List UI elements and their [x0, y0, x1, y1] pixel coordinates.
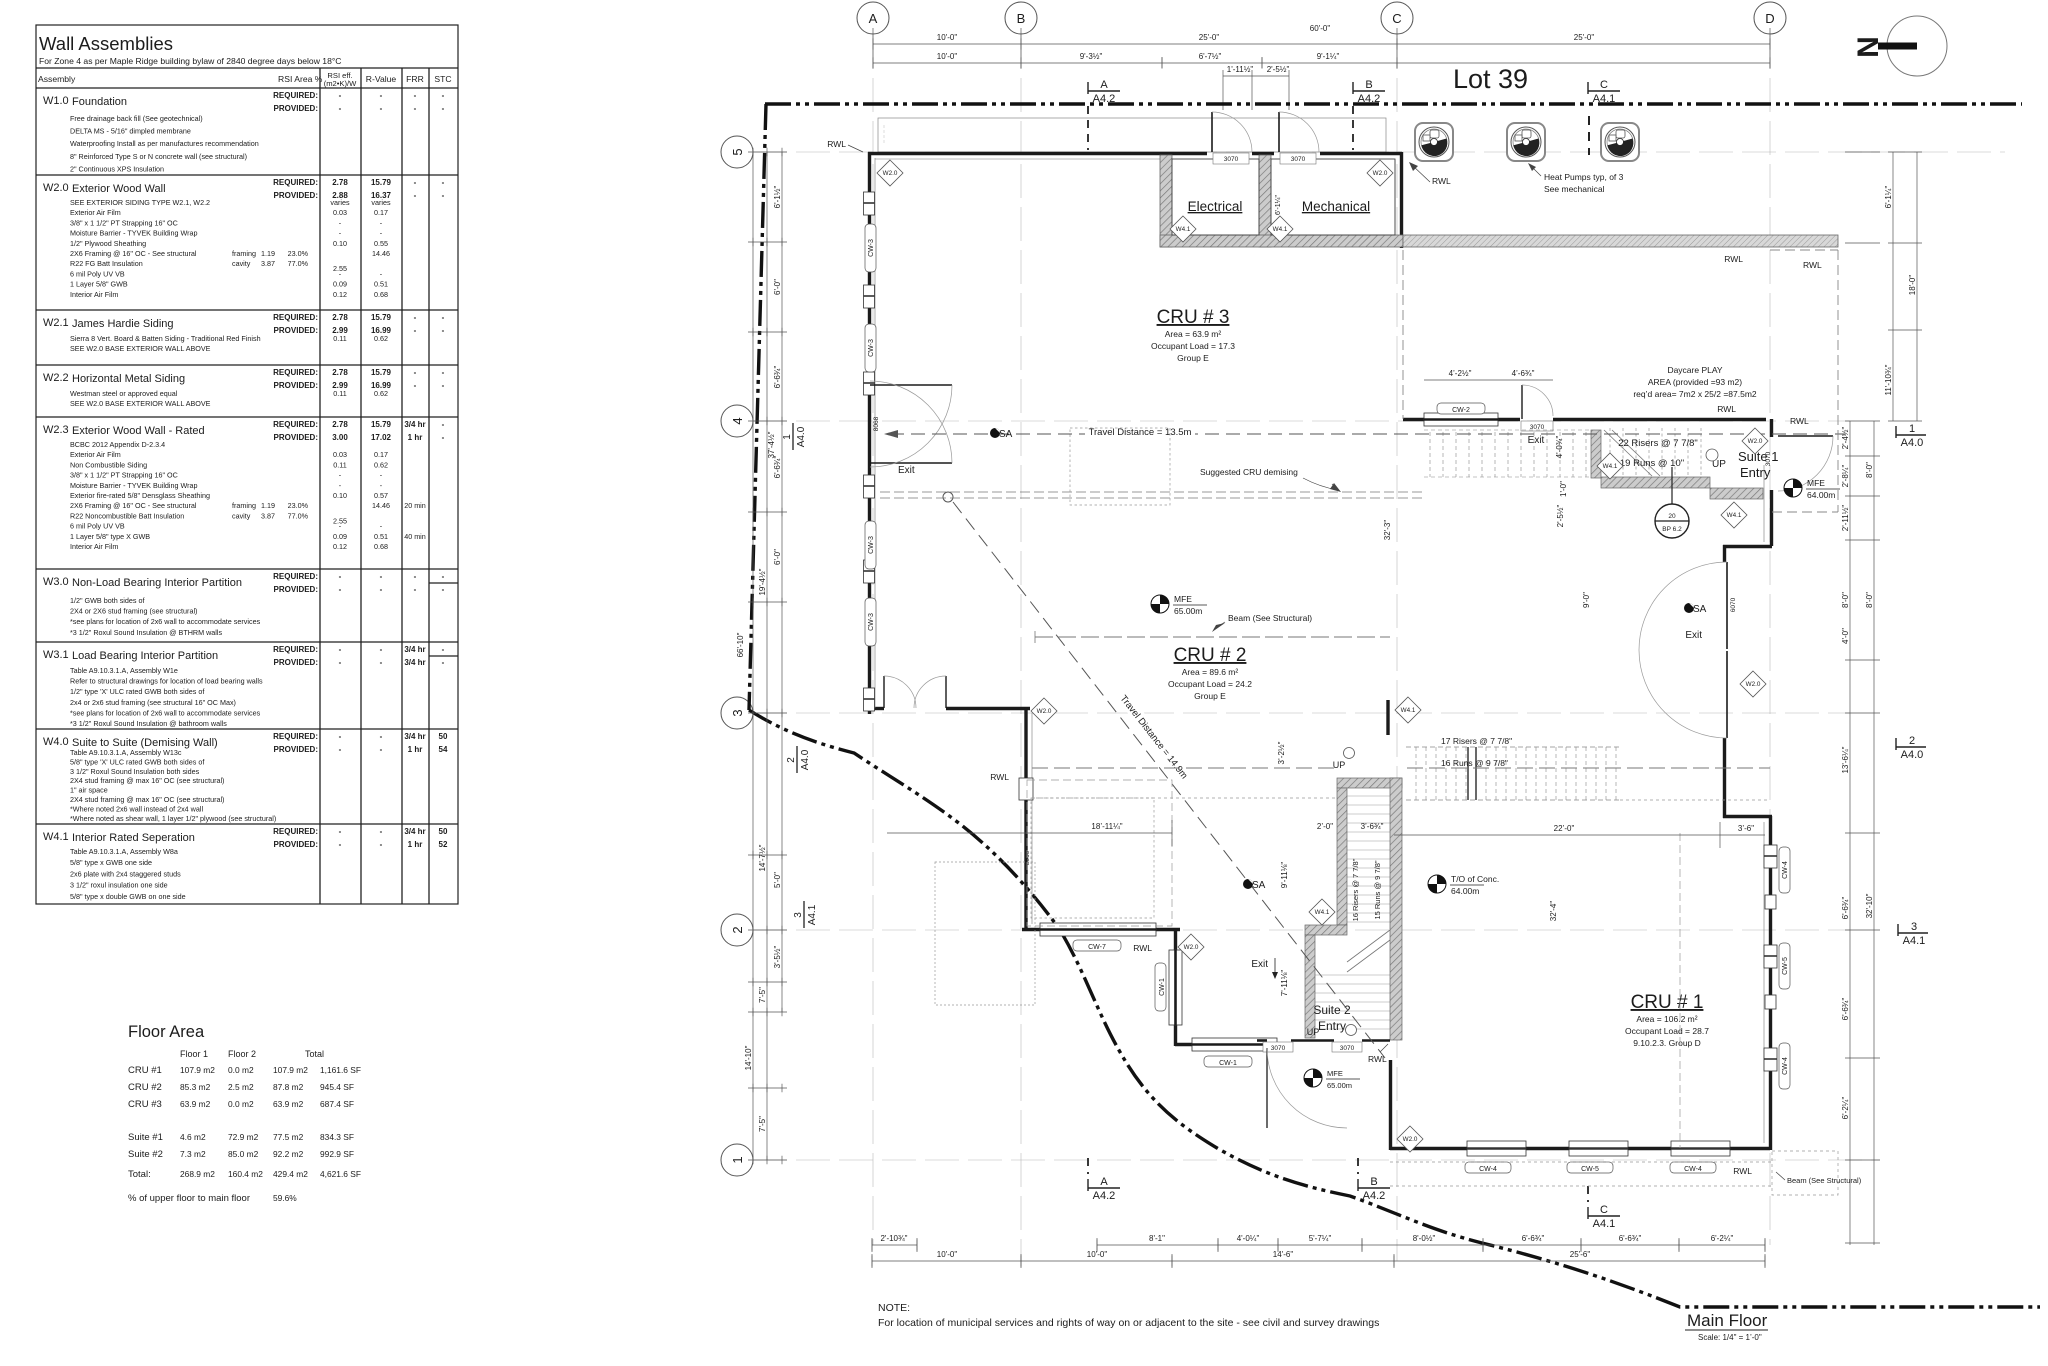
- svg-text:-: -: [414, 381, 417, 390]
- svg-text:-: -: [414, 104, 417, 113]
- svg-text:0.57: 0.57: [374, 491, 388, 500]
- lower-left step walls: [868, 707, 884, 710]
- svg-text:7'-5": 7'-5": [758, 987, 767, 1003]
- svg-text:22’-0": 22’-0": [1554, 824, 1575, 833]
- svg-text:-: -: [380, 585, 383, 594]
- svg-text:Table A9.10.3.1.A, Assembly W8: Table A9.10.3.1.A, Assembly W8a: [70, 847, 178, 856]
- svg-text:54: 54: [439, 745, 448, 754]
- svg-text:14'-7½": 14'-7½": [758, 844, 767, 871]
- svg-text:1: 1: [730, 1156, 745, 1163]
- svg-text:2’-0": 2’-0": [1317, 822, 1333, 831]
- svg-text:cavity: cavity: [232, 511, 251, 520]
- svg-text:15 Runs @ 9 7/8": 15 Runs @ 9 7/8": [1373, 860, 1382, 919]
- svg-text:Total: Total: [305, 1049, 324, 1059]
- svg-text:3070: 3070: [1271, 1045, 1286, 1052]
- svg-text:D: D: [1765, 11, 1774, 26]
- svg-text:AREA (provided =93 m2): AREA (provided =93 m2): [1648, 377, 1742, 387]
- svg-text:2'-5½": 2'-5½": [1556, 505, 1565, 528]
- svg-text:-: -: [380, 91, 383, 100]
- svg-text:REQUIRED:: REQUIRED:: [273, 732, 318, 741]
- svg-text:-: -: [442, 420, 445, 429]
- door 3070 electrical: [1211, 112, 1213, 152]
- svg-text:RWL: RWL: [990, 772, 1009, 782]
- svg-text:50: 50: [439, 827, 448, 836]
- svg-text:-: -: [339, 827, 342, 836]
- svg-text:RWL: RWL: [1717, 404, 1736, 414]
- svg-text:72.9 m2: 72.9 m2: [228, 1132, 259, 1142]
- svg-text:REQUIRED:: REQUIRED:: [273, 420, 318, 429]
- svg-text:Suite 2: Suite 2: [1313, 1003, 1351, 1017]
- daycare play dashed boundary: [1403, 250, 1838, 512]
- svg-text:2'-5½": 2'-5½": [1267, 65, 1290, 74]
- svg-text:32'-10": 32'-10": [1865, 893, 1874, 918]
- svg-text:50: 50: [439, 732, 448, 741]
- svg-text:-: -: [380, 840, 383, 849]
- svg-text:-: -: [442, 585, 445, 594]
- svg-text:-: -: [442, 368, 445, 377]
- svg-text:REQUIRED:: REQUIRED:: [273, 827, 318, 836]
- svg-text:W2.0: W2.0: [1746, 681, 1761, 688]
- svg-text:BCBC 2012 Appendix D-2.3.4: BCBC 2012 Appendix D-2.3.4: [70, 440, 165, 449]
- wall assemblies table: [36, 25, 458, 904]
- svg-text:64.00m: 64.00m: [1451, 886, 1479, 896]
- svg-text:-: -: [442, 433, 445, 442]
- right dimension lines: [1845, 152, 1922, 1245]
- svg-text:6'-6¾": 6'-6¾": [1619, 1234, 1642, 1243]
- svg-text:W2.0: W2.0: [1403, 1136, 1418, 1143]
- svg-text:CW-3: CW-3: [868, 536, 875, 554]
- svg-text:framing: framing: [232, 249, 256, 258]
- svg-text:-: -: [380, 572, 383, 581]
- svg-text:N: N: [1852, 36, 1885, 58]
- svg-text:Wall Assemblies: Wall Assemblies: [39, 33, 173, 54]
- svg-text:25'-0": 25'-0": [1199, 33, 1220, 42]
- svg-text:2'-11½": 2'-11½": [1841, 505, 1850, 532]
- svg-text:W2.0: W2.0: [1373, 170, 1388, 177]
- svg-text:2'-4½": 2'-4½": [1841, 427, 1850, 450]
- svg-text:B: B: [1370, 1176, 1377, 1188]
- svg-text:-: -: [442, 313, 445, 322]
- svg-text:6'-6¾": 6'-6¾": [773, 366, 782, 389]
- svg-text:0.12: 0.12: [333, 290, 347, 299]
- svg-text:19 Runs @ 10": 19 Runs @ 10": [1620, 458, 1684, 469]
- svg-text:Exit: Exit: [898, 465, 915, 476]
- svg-text:40 min: 40 min: [404, 532, 426, 541]
- svg-text:-: -: [380, 745, 383, 754]
- svg-text:MFE: MFE: [1807, 478, 1825, 488]
- svg-text:RWL: RWL: [1432, 176, 1451, 186]
- svg-text:3/4 hr: 3/4 hr: [404, 645, 425, 654]
- svg-text:3/4 hr: 3/4 hr: [404, 420, 425, 429]
- svg-text:0.68: 0.68: [374, 290, 388, 299]
- svg-text:W2.0: W2.0: [1184, 944, 1199, 951]
- right exterior wall: [1769, 816, 1772, 1150]
- svg-text:Heat Pumps typ, of 3: Heat Pumps typ, of 3: [1544, 172, 1624, 182]
- window CW-1 vertical: [1169, 950, 1182, 1025]
- svg-text:6'-6¾": 6'-6¾": [1841, 998, 1850, 1021]
- svg-text:SEE W2.0 BASE EXTERIOR WALL AB: SEE W2.0 BASE EXTERIOR WALL ABOVE: [70, 344, 211, 353]
- svg-text:0.09: 0.09: [333, 280, 347, 289]
- svg-text:W4.1: W4.1: [1176, 226, 1191, 233]
- svg-text:992.9 SF: 992.9 SF: [320, 1149, 354, 1159]
- svg-text:-: -: [414, 313, 417, 322]
- svg-text:-: -: [339, 645, 342, 654]
- svg-text:63.9 m2: 63.9 m2: [273, 1099, 304, 1109]
- svg-text:Assembly: Assembly: [38, 74, 76, 84]
- svg-text:-: -: [339, 745, 342, 754]
- svg-text:Non Combustible Siding: Non Combustible Siding: [70, 460, 147, 469]
- svg-text:req’d area= 7m2 x 25/2 =87.5m: req’d area= 7m2 x 25/2 =87.5m2: [1633, 389, 1757, 399]
- svg-text:W4.1: W4.1: [43, 831, 69, 843]
- svg-text:63.9 m2: 63.9 m2: [180, 1099, 211, 1109]
- svg-text:5/8" type x double GWB on one: 5/8" type x double GWB on one side: [70, 892, 186, 901]
- svg-text:varies: varies: [371, 198, 391, 207]
- left dimension lines: [748, 148, 787, 1164]
- svg-text:22 Risers @ 7 7/8": 22 Risers @ 7 7/8": [1618, 438, 1698, 449]
- window CW-1 horizontal: [1192, 1038, 1277, 1051]
- door 8068 left wall: [870, 384, 952, 386]
- svg-text:A4.0: A4.0: [796, 426, 807, 447]
- svg-text:2x6 plate with 2x4 staggered s: 2x6 plate with 2x4 staggered studs: [70, 869, 181, 878]
- svg-text:8'-0": 8'-0": [1865, 462, 1874, 478]
- svg-text:Waterproofing Install as per m: Waterproofing Install as per manufacture…: [70, 139, 259, 148]
- svg-text:PROVIDED:: PROVIDED:: [274, 191, 318, 200]
- svg-text:37'-4½": 37'-4½": [767, 431, 776, 458]
- svg-text:A4.1: A4.1: [807, 904, 818, 925]
- svg-text:RWL: RWL: [1724, 254, 1743, 264]
- wall type diamonds: [877, 160, 903, 186]
- svg-text:15.79: 15.79: [371, 368, 392, 377]
- svg-text:R22 Noncombustible Batt Insula: R22 Noncombustible Batt Insulation: [70, 511, 184, 520]
- svg-text:0.62: 0.62: [374, 334, 388, 343]
- svg-text:6'-1¼": 6'-1¼": [1884, 186, 1893, 209]
- svg-text:-: -: [414, 572, 417, 581]
- svg-text:W3.0: W3.0: [43, 576, 69, 588]
- svg-text:0.11: 0.11: [333, 334, 346, 343]
- svg-text:6'-7½": 6'-7½": [1199, 52, 1222, 61]
- svg-text:15.79: 15.79: [371, 420, 392, 429]
- svg-text:3.87: 3.87: [261, 511, 275, 520]
- beam note bottom right: [1390, 1151, 1838, 1195]
- svg-text:W3.1: W3.1: [43, 649, 69, 661]
- svg-text:-: -: [380, 658, 383, 667]
- svg-text:CW-1: CW-1: [1219, 1060, 1237, 1067]
- svg-text:3’-2½": 3’-2½": [1277, 741, 1286, 764]
- svg-text:Total:: Total:: [128, 1169, 151, 1180]
- svg-text:0.62: 0.62: [374, 389, 388, 398]
- svg-text:-: -: [339, 585, 342, 594]
- window CW-2: [1424, 413, 1498, 426]
- svg-text:6'-1½": 6'-1½": [773, 186, 782, 209]
- suite 1 stair treads: [1424, 428, 1701, 477]
- svg-text:59.6%: 59.6%: [273, 1193, 297, 1203]
- svg-text:Group E: Group E: [1177, 353, 1209, 363]
- svg-text:W2.0: W2.0: [43, 182, 69, 194]
- row4 wall: [1403, 418, 1424, 421]
- svg-text:UP: UP: [1307, 1027, 1320, 1037]
- svg-text:8'-1": 8'-1": [1149, 1234, 1165, 1243]
- svg-text:A4.0: A4.0: [1901, 749, 1924, 761]
- svg-text:T/O of Conc.: T/O of Conc.: [1451, 874, 1499, 884]
- svg-text:Main Floor: Main Floor: [1687, 1311, 1768, 1330]
- svg-text:Area = 63.9 m²: Area = 63.9 m²: [1165, 329, 1222, 339]
- svg-text:2X6 Framing @ 16" OC - See str: 2X6 Framing @ 16" OC - See structural: [70, 501, 197, 510]
- svg-text:W4.1: W4.1: [1603, 463, 1618, 470]
- svg-text:0.11: 0.11: [333, 460, 346, 469]
- svg-text:3/4 hr: 3/4 hr: [404, 658, 425, 667]
- svg-text:1/2" type 'X' ULC rated GWB bo: 1/2" type 'X' ULC rated GWB both sides o…: [70, 687, 204, 696]
- svg-text:66'-10": 66'-10": [736, 632, 745, 657]
- svg-text:W4.1: W4.1: [1401, 707, 1416, 714]
- svg-text:*see plans for location of 2x6: *see plans for location of 2x6 wall to a…: [70, 617, 261, 626]
- svg-text:-: -: [414, 326, 417, 335]
- svg-text:14'-6": 14'-6": [1273, 1250, 1294, 1259]
- svg-text:For location of municipal serv: For location of municipal services and r…: [878, 1317, 1379, 1329]
- svg-text:Interior Air Film: Interior Air Film: [70, 542, 118, 551]
- svg-text:1" air space: 1" air space: [70, 786, 108, 795]
- svg-text:Travel Distance = 13.5m: Travel Distance = 13.5m: [1089, 427, 1192, 438]
- svg-text:framing: framing: [232, 501, 256, 510]
- suite 1 stair hatched walls: [1591, 430, 1601, 478]
- svg-text:-: -: [442, 326, 445, 335]
- svg-text:-: -: [442, 191, 445, 200]
- svg-text:CRU #3: CRU #3: [128, 1099, 162, 1110]
- T/O of Conc symbol: [1428, 874, 1499, 896]
- svg-text:SA: SA: [999, 429, 1013, 440]
- svg-text:Electrical: Electrical: [1188, 199, 1243, 214]
- svg-text:C: C: [1600, 1204, 1608, 1216]
- svg-text:17 Risers @ 7 7/8": 17 Risers @ 7 7/8": [1441, 736, 1512, 746]
- door 3070 mechanical: [1278, 112, 1280, 152]
- svg-text:6070: 6070: [1730, 597, 1737, 612]
- svg-text:W2.0: W2.0: [883, 170, 898, 177]
- svg-text:CW-2: CW-2: [1452, 407, 1470, 414]
- svg-text:PROVIDED:: PROVIDED:: [274, 585, 318, 594]
- svg-text:SEE W2.0 BASE EXTERIOR WALL AB: SEE W2.0 BASE EXTERIOR WALL ABOVE: [70, 399, 211, 408]
- svg-text:Exterior Wood Wall: Exterior Wood Wall: [72, 183, 166, 195]
- svg-text:B: B: [1017, 11, 1026, 26]
- svg-text:9'-3½": 9'-3½": [1080, 52, 1103, 61]
- svg-text:2.78: 2.78: [332, 420, 348, 429]
- svg-text:10'-0": 10'-0": [1087, 1250, 1108, 1259]
- svg-text:3/4 hr: 3/4 hr: [404, 732, 425, 741]
- svg-text:8068: 8068: [873, 416, 880, 431]
- svg-text:Exit: Exit: [1251, 959, 1268, 970]
- svg-text:-: -: [380, 104, 383, 113]
- svg-text:Beam (See Structural): Beam (See Structural): [1787, 1176, 1862, 1185]
- svg-text:1.19: 1.19: [261, 501, 275, 510]
- svg-text:834.3 SF: 834.3 SF: [320, 1132, 354, 1142]
- svg-text:REQUIRED:: REQUIRED:: [273, 91, 318, 100]
- svg-text:Load Bearing Interior Partitio: Load Bearing Interior Partition: [72, 650, 218, 662]
- svg-text:REQUIRED:: REQUIRED:: [273, 645, 318, 654]
- svg-text:Refer to structural drawings f: Refer to structural drawings for locatio…: [70, 677, 263, 686]
- svg-text:Scale: 1/4" = 1’-0": Scale: 1/4" = 1’-0": [1698, 1333, 1762, 1342]
- svg-text:NOTE:: NOTE:: [878, 1302, 910, 1314]
- top dimension lines: [867, 28, 1775, 110]
- svg-text:6'-0": 6'-0": [773, 549, 782, 565]
- svg-text:Daycare PLAY: Daycare PLAY: [1667, 365, 1722, 375]
- suite 2 entry doors: [1257, 1039, 1267, 1042]
- svg-text:77.5 m2: 77.5 m2: [273, 1132, 304, 1142]
- svg-text:*Where noted as shear wall, 1: *Where noted as shear wall, 1 layer 1/2"…: [70, 814, 276, 823]
- svg-text:429.4 m2: 429.4 m2: [273, 1169, 308, 1179]
- svg-text:0.10: 0.10: [333, 239, 347, 248]
- svg-text:C: C: [1600, 79, 1608, 91]
- svg-text:8'-0": 8'-0": [1865, 592, 1874, 608]
- svg-text:3’-6¾": 3’-6¾": [1361, 822, 1384, 831]
- svg-text:A4.2: A4.2: [1363, 1190, 1386, 1202]
- grid bubbles: [721, 2, 1786, 1176]
- svg-text:W4.0: W4.0: [43, 736, 69, 748]
- svg-text:James Hardie Siding: James Hardie Siding: [72, 318, 174, 330]
- svg-text:Occupant Load = 24.2: Occupant Load = 24.2: [1168, 679, 1252, 689]
- svg-text:Suggested CRU demising: Suggested CRU demising: [1200, 467, 1298, 477]
- svg-text:-: -: [339, 840, 342, 849]
- svg-text:2X6 Framing @ 16" OC - See str: 2X6 Framing @ 16" OC - See structural: [70, 249, 197, 258]
- svg-text:PROVIDED:: PROVIDED:: [274, 658, 318, 667]
- svg-text:1,161.6 SF: 1,161.6 SF: [320, 1065, 361, 1075]
- svg-text:1/2" Plywood Sheathing: 1/2" Plywood Sheathing: [70, 239, 146, 248]
- svg-text:-: -: [414, 178, 417, 187]
- svg-text:CW-4: CW-4: [1479, 1166, 1497, 1173]
- svg-text:FRR: FRR: [406, 74, 424, 84]
- svg-text:3’-6": 3’-6": [1738, 824, 1754, 833]
- svg-text:10'-0": 10'-0": [937, 1250, 958, 1259]
- svg-text:-: -: [442, 178, 445, 187]
- svg-text:-: -: [414, 585, 417, 594]
- svg-text:PROVIDED:: PROVIDED:: [274, 745, 318, 754]
- svg-text:1.19: 1.19: [261, 249, 275, 258]
- svg-text:PROVIDED:: PROVIDED:: [274, 433, 318, 442]
- svg-text:REQUIRED:: REQUIRED:: [273, 368, 318, 377]
- svg-text:20: 20: [1668, 513, 1676, 520]
- svg-text:2x4 or 2x6 stud framing (see s: 2x4 or 2x6 stud framing (see structural …: [70, 698, 236, 707]
- svg-text:8060: 8060: [1024, 850, 1031, 865]
- svg-text:268.9 m2: 268.9 m2: [180, 1169, 215, 1179]
- heat pumps: [1415, 123, 1453, 161]
- svg-text:W2.3: W2.3: [43, 424, 69, 436]
- svg-text:6 mil Poly UV VB: 6 mil Poly UV VB: [70, 269, 125, 278]
- svg-text:0.62: 0.62: [374, 460, 388, 469]
- svg-text:CRU #2: CRU #2: [128, 1082, 162, 1093]
- svg-text:14.46: 14.46: [372, 249, 390, 258]
- svg-text:A4.0: A4.0: [1901, 437, 1924, 449]
- svg-text:Floor 1: Floor 1: [180, 1049, 208, 1059]
- svg-text:0.03: 0.03: [333, 450, 347, 459]
- svg-text:8'-0": 8'-0": [1841, 592, 1850, 608]
- svg-text:7'-11⅛": 7'-11⅛": [1280, 970, 1289, 997]
- svg-text:BP 6.2: BP 6.2: [1662, 526, 1682, 533]
- exit alcove: [1723, 545, 1772, 548]
- svg-text:2: 2: [1909, 735, 1915, 747]
- svg-text:Exterior Wood Wall - Rated: Exterior Wood Wall - Rated: [72, 425, 205, 437]
- svg-text:(m2•K)/W: (m2•K)/W: [324, 79, 357, 88]
- svg-text:PROVIDED:: PROVIDED:: [274, 326, 318, 335]
- door lower-left wall: [883, 676, 885, 708]
- svg-text:RWL: RWL: [1733, 1166, 1752, 1176]
- beam line: [1035, 636, 1390, 638]
- svg-text:2X4 stud framing @ max 16" OC: 2X4 stud framing @ max 16" OC (see struc…: [70, 795, 224, 804]
- svg-text:SA: SA: [1252, 880, 1266, 891]
- svg-text:3 1/2" roxul insulation one si: 3 1/2" roxul insulation one side: [70, 881, 168, 890]
- svg-text:*3 1/2" Roxul Sound Insulation: *3 1/2" Roxul Sound Insulation @ bathroo…: [70, 719, 227, 728]
- svg-text:CW-4: CW-4: [1782, 1057, 1789, 1075]
- svg-text:-: -: [380, 827, 383, 836]
- MFE 65.00m symbol: [1151, 594, 1207, 616]
- svg-text:Exit: Exit: [1528, 435, 1545, 446]
- svg-text:687.4 SF: 687.4 SF: [320, 1099, 354, 1109]
- svg-text:-: -: [339, 572, 342, 581]
- svg-text:8'-0½": 8'-0½": [1413, 1234, 1436, 1243]
- svg-text:RWL: RWL: [827, 139, 846, 149]
- svg-text:2.5 m2: 2.5 m2: [228, 1082, 254, 1092]
- left exterior wall: [868, 152, 871, 714]
- svg-text:-: -: [339, 104, 342, 113]
- svg-text:RWL: RWL: [1133, 943, 1152, 953]
- svg-text:Exterior Air Film: Exterior Air Film: [70, 208, 121, 217]
- svg-text:6'-2¼": 6'-2¼": [1711, 1234, 1734, 1243]
- svg-text:CW-3: CW-3: [868, 239, 875, 257]
- svg-text:4’-6¾": 4’-6¾": [1512, 369, 1535, 378]
- suite 2 stair shaft: [1315, 796, 1390, 1029]
- svg-text:A4.0: A4.0: [800, 749, 811, 770]
- svg-text:17.02: 17.02: [371, 433, 392, 442]
- svg-text:W4.1: W4.1: [1273, 226, 1288, 233]
- suite 1 entry door: [1778, 435, 1833, 437]
- travel distance 13.5m line: [890, 433, 1845, 435]
- svg-text:10'-0": 10'-0": [937, 33, 958, 42]
- suite1 right wall: [1770, 419, 1773, 437]
- svg-text:-: -: [442, 645, 445, 654]
- svg-text:3: 3: [793, 912, 804, 918]
- svg-text:14'-10": 14'-10": [744, 1045, 753, 1070]
- grid lines: [753, 35, 2005, 1261]
- svg-text:1'-11½": 1'-11½": [1227, 65, 1254, 74]
- svg-text:3/8" x 1 1/2" PT Strapping 16": 3/8" x 1 1/2" PT Strapping 16" OC: [70, 218, 178, 227]
- svg-text:varies: varies: [330, 198, 350, 207]
- svg-text:7'-5": 7'-5": [758, 1116, 767, 1132]
- svg-text:23.0%: 23.0%: [288, 501, 309, 510]
- svg-text:*3 1/2" Roxul Sound Insulation: *3 1/2" Roxul Sound Insulation @ BTHRM w…: [70, 628, 222, 637]
- bottom wall windows: [1467, 1141, 1730, 1156]
- svg-text:3070: 3070: [1340, 1045, 1355, 1052]
- svg-text:85.0 m2: 85.0 m2: [228, 1149, 259, 1159]
- top exterior wall: [868, 152, 1772, 1150]
- svg-text:15.79: 15.79: [371, 313, 392, 322]
- roof overhang outline: [878, 118, 1386, 152]
- svg-text:7.3 m2: 7.3 m2: [180, 1149, 206, 1159]
- svg-text:6'-0": 6'-0": [773, 279, 782, 295]
- svg-text:2X4 or 2X6 stud framing (see s: 2X4 or 2X6 stud framing (see structural): [70, 607, 197, 616]
- svg-text:2" Continuous XPS Insulation: 2" Continuous XPS Insulation: [70, 164, 164, 173]
- svg-text:92.2 m2: 92.2 m2: [273, 1149, 304, 1159]
- svg-text:-: -: [442, 572, 445, 581]
- svg-text:-: -: [442, 91, 445, 100]
- svg-text:CRU # 2: CRU # 2: [1174, 645, 1247, 666]
- svg-text:6'-2¼": 6'-2¼": [1841, 1097, 1850, 1120]
- svg-text:3070: 3070: [1291, 156, 1306, 163]
- svg-text:*see plans for location of 2x6: *see plans for location of 2x6 wall to a…: [70, 708, 261, 717]
- svg-text:0.11: 0.11: [333, 389, 346, 398]
- svg-text:REQUIRED:: REQUIRED:: [273, 313, 318, 322]
- svg-text:W2.2: W2.2: [43, 372, 69, 384]
- svg-text:-: -: [339, 732, 342, 741]
- svg-text:Area = 89.6 m²: Area = 89.6 m²: [1182, 667, 1239, 677]
- svg-text:4'-0": 4'-0": [1841, 628, 1850, 644]
- svg-text:32'-3": 32'-3": [1383, 520, 1392, 541]
- svg-text:Exterior Air Film: Exterior Air Film: [70, 450, 121, 459]
